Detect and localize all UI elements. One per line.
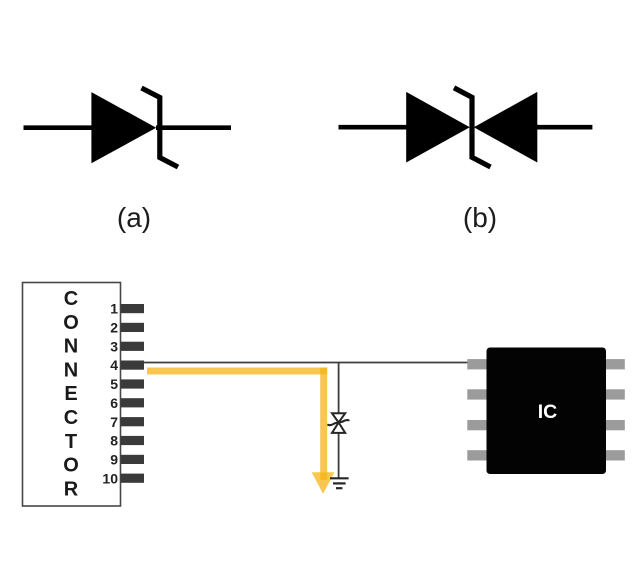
connector pin 5 [121,379,144,388]
svg-text:4: 4 [110,357,118,373]
IC U1 left pin 1 [467,359,491,369]
connector pin 8 [121,436,144,445]
diode D(a) cathode Z-bar [142,88,179,167]
diode D(a) unidirectional TVS symbol [24,88,232,167]
svg-text:10: 10 [102,470,118,486]
svg-text:(a): (a) [117,202,151,233]
IC U1 right pin 2 [602,389,625,399]
svg-text:C: C [64,288,78,310]
connector pin 10 [121,474,144,483]
IC U1 body [487,348,607,475]
diode D(b) bidirectional TVS symbol [339,88,593,167]
wire left lead of D(a) [24,125,96,130]
connector pin 9 [121,455,144,464]
connector pin 3 [121,342,144,351]
connector pin 7 [121,417,144,426]
svg-text:N: N [64,336,78,358]
diode D(b) left triangle [406,92,470,163]
svg-text:8: 8 [110,433,118,449]
svg-text:5: 5 [110,376,118,392]
surge current path (yellow) horizontal [147,368,327,375]
surge current path (yellow) arrowhead [312,472,335,494]
svg-text:C: C [64,407,78,429]
connector J1 body [23,283,121,507]
connector pin 2 [121,323,144,332]
diode D(a) anode triangle [91,92,156,163]
connector pin numbers 1-10 [102,301,118,487]
connector J1 label CONNECTOR [63,288,79,500]
svg-text:3: 3 [110,338,118,354]
connector pin 1 [121,304,144,313]
TVS diode D1 crossbar [328,420,348,425]
svg-text:E: E [64,383,77,405]
diode D(b) right triangle [474,92,538,163]
IC U1 right pin 4 [602,450,625,460]
connector pin 4 [121,361,144,370]
IC U1 left pin 4 [467,450,491,460]
IC U1 right pin 1 [602,359,625,369]
TVS diode D1 (protection) bottom triangle [332,423,345,433]
IC U1 left pin 2 [467,389,491,399]
IC U1 right pin 3 [602,420,625,430]
diode D(b) cathode Z-bar [454,88,491,167]
surge current path (yellow) vertical [320,368,327,481]
connector pin 6 [121,398,144,407]
wire branch down to TVS diode [338,363,340,479]
svg-text:T: T [65,431,77,453]
TVS diode D1 (protection) top triangle [332,413,345,422]
svg-text:9: 9 [110,452,118,468]
wire left lead of D(b) [339,125,411,130]
svg-text:7: 7 [110,414,118,430]
svg-text:2: 2 [110,320,118,336]
wire right lead of D(a) [156,125,231,130]
wire signal from connector pin 4 to IC [144,362,469,364]
IC U1 left pin 3 [467,420,491,430]
ground symbol [330,478,349,488]
svg-text:(b): (b) [463,202,497,233]
svg-text:N: N [64,359,78,381]
svg-text:R: R [64,478,79,500]
svg-text:O: O [63,312,79,334]
wire right lead of D(b) [536,125,592,130]
svg-text:1: 1 [110,301,118,317]
svg-text:O: O [63,455,79,477]
svg-text:IC: IC [538,401,558,423]
svg-text:6: 6 [110,395,118,411]
